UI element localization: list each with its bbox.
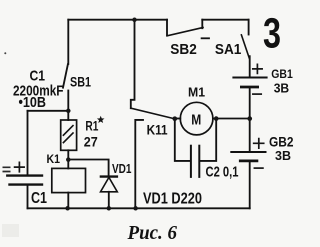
svg-text:SB2: SB2 — [170, 41, 197, 58]
relay contact K1.1 fixed terminal — [135, 120, 143, 208]
wire node to GB2 — [249, 119, 251, 151]
svg-text:27: 27 — [84, 134, 98, 150]
switch SB2 left terminal — [166, 20, 168, 36]
wire K1 node to VD1 — [68, 160, 108, 177]
wire C2 right branch — [200, 119, 216, 161]
node motor left — [172, 116, 177, 121]
svg-text:K1: K1 — [47, 154, 61, 166]
battery GB1 short plate — [241, 86, 257, 89]
wire GB2 to bottom rail — [249, 162, 251, 208]
wire SA1 to GB1 — [249, 56, 251, 76]
switch SB2 right terminal — [201, 20, 203, 29]
wire C1 branch down — [27, 111, 29, 175]
wire left branch lower — [67, 91, 69, 121]
battery GB2 long plate — [231, 151, 265, 153]
wire K1 to bottom rail — [67, 193, 69, 209]
polarity plus C1 — [15, 162, 25, 171]
star mark R1 — [97, 116, 105, 123]
relay coil K1 — [52, 168, 86, 192]
svg-text:SB1: SB1 — [70, 73, 91, 89]
battery GB1 long plate — [233, 77, 266, 79]
svg-text:C2 0,1: C2 0,1 — [206, 164, 239, 181]
motor M1 — [180, 102, 213, 135]
polarity minus GB2 — [254, 167, 263, 169]
svg-text:R1: R1 — [85, 119, 98, 134]
node K1 bottom rail — [65, 206, 70, 211]
wire GB1 to node — [249, 88, 251, 118]
scan artifacts — [2, 52, 19, 237]
diode VD1 triangle — [101, 177, 118, 191]
capacitor C1 top plate — [7, 174, 42, 176]
svg-text:VD1: VD1 — [112, 162, 132, 176]
svg-text:K11: K11 — [147, 122, 168, 138]
node battery junction — [247, 116, 252, 121]
wire bottom rail — [28, 207, 250, 209]
node VD1 bottom rail — [107, 206, 112, 211]
capacitor C2 right plate — [198, 146, 200, 177]
wire VD1 to bottom rail — [108, 192, 110, 209]
battery GB2 short plate — [240, 159, 257, 162]
switch SB2 contact dash — [202, 37, 209, 39]
wire R1 to K1 — [67, 150, 69, 168]
capacitor C1 bottom plate — [10, 183, 43, 185]
node top rail — [132, 18, 137, 23]
svg-text:M: M — [191, 111, 201, 128]
node motor right C2 — [214, 116, 219, 121]
svg-text:VD1 D220: VD1 D220 — [143, 191, 202, 208]
svg-text:3B: 3B — [274, 81, 290, 95]
wire top rail left — [68, 19, 167, 21]
polarity plus GB2 — [254, 139, 264, 149]
svg-text:C1: C1 — [31, 190, 47, 207]
diode VD1 cathode bar — [101, 175, 117, 177]
node K1.1 bottom rail — [133, 206, 138, 211]
polarity plus GB1 — [253, 64, 262, 73]
wire C1 to bottom rail — [27, 186, 29, 209]
capacitor C2 left plate — [190, 146, 192, 177]
svg-text:Рис. 6: Рис. 6 — [127, 223, 178, 244]
svg-text:SA1: SA1 — [215, 41, 242, 58]
polarity minus GB1 — [253, 93, 261, 95]
switch SB1 — [63, 64, 68, 87]
wire top rail right — [202, 19, 248, 21]
wire node to motor — [175, 118, 181, 120]
wire middle branch from top rail — [131, 20, 135, 109]
wire C2 left branch — [175, 119, 190, 161]
svg-text:3: 3 — [263, 10, 281, 58]
node SB1 C1 junction — [66, 109, 71, 114]
svg-text:•10B: •10B — [19, 95, 47, 111]
switch SB2 blade — [167, 28, 203, 36]
svg-text:M1: M1 — [188, 84, 205, 99]
wire motor to battery node — [213, 118, 250, 120]
wire left branch upper — [67, 20, 69, 64]
switch SA1 terminal — [248, 20, 250, 35]
node K1 top — [66, 157, 71, 162]
relay contact K1.1 blade — [131, 108, 175, 119]
wire C1 branch horizontal — [28, 110, 69, 112]
resistor R1 — [61, 120, 77, 150]
svg-text:GB1: GB1 — [271, 67, 293, 81]
svg-text:3B: 3B — [275, 148, 291, 163]
svg-text:C1: C1 — [30, 69, 46, 85]
switch SA1 blade — [241, 35, 249, 58]
